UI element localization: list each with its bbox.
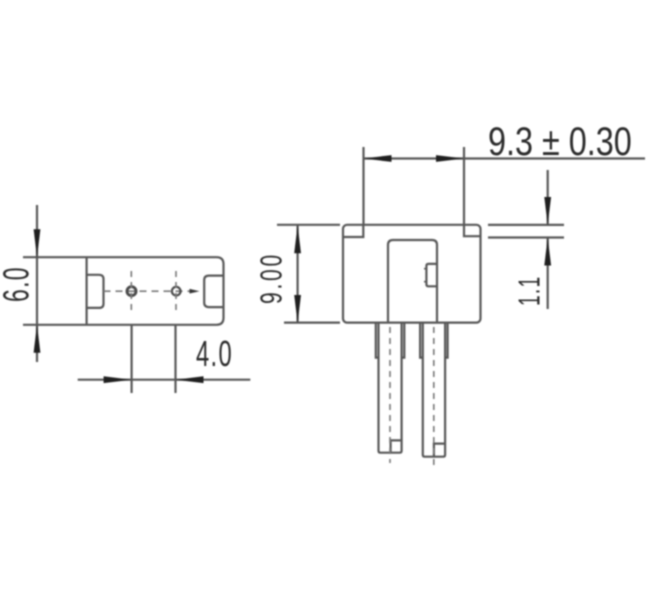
dimension line 4.0: [78, 379, 251, 381]
dimension line 6.0: [36, 205, 38, 362]
centerline arrow: [190, 289, 200, 294]
extension line 1.1 top: [488, 224, 564, 226]
leg 2 narrow left: [423, 323, 445, 457]
pin hole 1: [127, 287, 136, 296]
dimension 1.1 lower leader: [547, 238, 549, 310]
pin 2 extension line: [174, 325, 176, 393]
arrow 6.0 bottom: [34, 325, 41, 353]
arrow 1.1 up: [544, 238, 551, 266]
arrow 1.1 down: [544, 197, 551, 225]
extension line 9.00 top: [277, 224, 340, 226]
inner window: [388, 240, 437, 323]
pin hole 2: [172, 287, 181, 296]
slot tab: [426, 264, 437, 286]
svg-text:9.00: 9.00: [253, 252, 288, 304]
leg 1 collar left: [376, 323, 379, 358]
arrow 6.0 top: [34, 229, 41, 257]
leg 1 tip bevel: [391, 440, 402, 452]
leg 2 collar right: [445, 323, 448, 358]
leg 2 tip bevel: [434, 444, 445, 457]
slot tick top: [424, 268, 426, 270]
left view right notch: [204, 276, 223, 308]
dimension line 9.00: [297, 225, 299, 323]
extension line 9.3 right: [463, 147, 465, 224]
leg 2 collar left: [420, 323, 423, 358]
pin 1 extension line: [131, 325, 133, 393]
svg-text:4.0: 4.0: [196, 334, 233, 374]
arrow 9.3 right: [436, 155, 464, 162]
svg-text:6.0: 6.0: [0, 266, 37, 302]
svg-text:9.3 ± 0.30: 9.3 ± 0.30: [488, 119, 632, 164]
leg 1 collar right: [402, 323, 405, 358]
dimension line 9.3: [364, 157, 646, 159]
arrow 9.00 top: [294, 225, 301, 253]
right view body: [343, 225, 481, 323]
pin 1 vertical crosshair: [130, 271, 132, 313]
right view top-right corner notch: [464, 225, 481, 236]
left view left notch: [87, 275, 104, 308]
centerline through pins: [104, 290, 197, 292]
arrow 9.00 bottom: [294, 295, 301, 323]
svg-text:1.1: 1.1: [513, 276, 547, 306]
dimension 1.1 upper leader: [547, 170, 549, 225]
slot tick bottom: [424, 281, 426, 283]
extension line 9.3 left: [362, 147, 364, 224]
right view top-left corner notch: [343, 225, 363, 237]
arrow 9.3 left: [364, 155, 392, 162]
arrow 4.0 right: [176, 376, 204, 383]
left view body outline: [23, 257, 224, 325]
leg 1 narrow left: [379, 323, 402, 453]
left view left edge: [85, 257, 87, 325]
leg 2 centerline: [433, 327, 435, 467]
arrow 4.0 left: [104, 376, 132, 383]
extension line 1.1 bottom: [488, 236, 564, 238]
pin 2 vertical crosshair: [175, 271, 177, 313]
leg 1 centerline: [389, 327, 391, 463]
extension line 9.00 bottom: [284, 322, 340, 324]
